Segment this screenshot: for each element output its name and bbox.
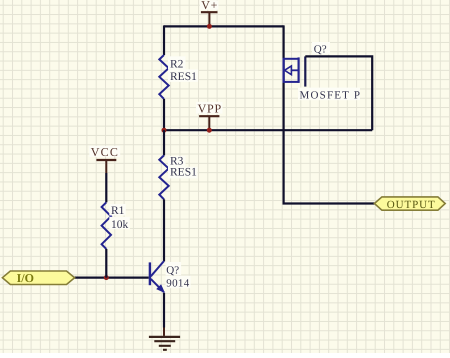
- wire R1 bottom to base wire: [105, 249, 107, 278]
- label Q? (BJT): [166, 262, 182, 275]
- wire R3 bottom to collector: [163, 199, 165, 261]
- wire base from I/O port: [75, 277, 149, 279]
- value 9014: [166, 276, 191, 288]
- value MOSFET P: [298, 88, 360, 101]
- power V+: [200, 0, 219, 25]
- label R3: [168, 156, 186, 168]
- svg-text:Q?: Q?: [314, 43, 327, 55]
- wire R2 bottom to VPP node: [163, 99, 165, 130]
- junction dot at R1/base: [104, 275, 109, 280]
- mosfet Q? source-drain line segment: [283, 58, 285, 83]
- label Q? (MOSFET): [312, 42, 330, 54]
- value 10k: [109, 217, 130, 229]
- label R1: [109, 204, 126, 216]
- svg-text:VCC: VCC: [91, 145, 119, 159]
- port I/O: [2, 271, 74, 285]
- svg-text:VPP: VPP: [198, 102, 222, 116]
- junction dot at V+: [207, 24, 212, 29]
- wire VPP node rail: [164, 129, 372, 131]
- svg-text:OUTPUT: OUTPUT: [387, 199, 436, 211]
- junction dot at R2/R3 node: [162, 128, 167, 133]
- ground bar 3: [159, 345, 171, 347]
- wire gate routing to VPP node: [305, 56, 372, 130]
- svg-text:Q?: Q?: [166, 265, 179, 277]
- wire R3 branch top: [163, 130, 165, 155]
- ground bar 1: [149, 336, 180, 338]
- ground bar 4: [163, 349, 167, 351]
- svg-text:10k: 10k: [111, 219, 129, 231]
- label R2: [168, 56, 186, 69]
- wire V+ rail horizontal: [164, 25, 284, 27]
- junction dot at VPP stem: [207, 128, 212, 133]
- wire VCC to R1: [105, 173, 107, 202]
- svg-text:R1: R1: [111, 205, 125, 217]
- mosfet gate bar: [304, 56, 306, 86]
- svg-text:I/O: I/O: [17, 271, 34, 285]
- wire right branch V+ down to MOSFET and OUTPUT: [284, 25, 375, 203]
- power VPP: [196, 102, 223, 129]
- wire emitter to ground: [163, 293, 165, 328]
- ground bar 2: [154, 340, 175, 342]
- wire left branch V+ to R2: [163, 25, 165, 55]
- port OUTPUT: [374, 197, 445, 211]
- resistor R1: [102, 202, 111, 249]
- transistor Q1 emitter diagonal: [151, 279, 164, 292]
- power VCC: [89, 145, 120, 173]
- transistor Q1 9014 collector diagonal: [151, 261, 164, 276]
- ground stem: [163, 328, 165, 336]
- resistor R3: [159, 155, 168, 199]
- value RES1 (R2): [168, 69, 198, 82]
- mosfet top stub (source): [284, 58, 299, 60]
- transistor Q1 emitter arrow: [156, 284, 165, 293]
- resistor R2: [159, 55, 168, 99]
- svg-text:9014: 9014: [166, 278, 189, 290]
- svg-text:RES1: RES1: [170, 166, 197, 178]
- value RES1 (R3): [168, 167, 198, 179]
- svg-text:RES1: RES1: [170, 71, 197, 83]
- mosfet bottom stub (drain): [284, 81, 299, 83]
- mosfet channel bar: [298, 57, 300, 83]
- svg-text:V+: V+: [201, 0, 218, 12]
- transistor Q1 base bar: [149, 262, 151, 285]
- svg-text:MOSFET P: MOSFET P: [300, 90, 362, 102]
- mosfet bulk arrow (open): [285, 66, 292, 75]
- mosfet bulk line: [291, 69, 298, 71]
- svg-text:R2: R2: [170, 58, 184, 70]
